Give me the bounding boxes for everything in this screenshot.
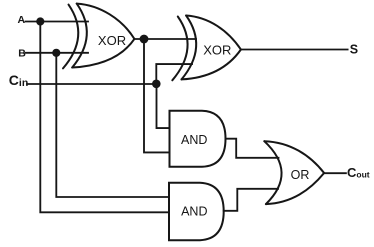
xor gate U2 ((A xor B) xor Cin) xyxy=(172,16,241,81)
wire XOR2 output to S xyxy=(241,49,348,51)
svg-text:B: B xyxy=(18,47,26,59)
or gate U5 (carry out) xyxy=(264,141,324,204)
svg-text:A: A xyxy=(18,14,26,26)
and gate U3 ((A xor B) and Cin) xyxy=(170,111,226,167)
wire OR output to Cout xyxy=(324,172,346,174)
wire Cin branch up to XOR2 lower input xyxy=(156,64,192,84)
svg-text:AND: AND xyxy=(181,205,207,219)
wire A branch down to AND2 lower input xyxy=(40,22,169,213)
wire A input xyxy=(26,21,89,23)
xor gate U1 (A xor B) xyxy=(63,4,134,69)
svg-text:S: S xyxy=(350,43,358,57)
node junction on A xyxy=(36,17,44,25)
wire B branch down to AND2 upper input xyxy=(56,53,169,197)
and gate U4 (A and B) xyxy=(169,183,224,241)
node junction on B xyxy=(52,49,60,57)
svg-text:XOR: XOR xyxy=(98,33,126,48)
wire AND2 output to OR lower input xyxy=(224,189,278,211)
svg-text:AND: AND xyxy=(181,133,207,147)
node junction on Cin xyxy=(152,80,161,89)
wire Cin input xyxy=(27,83,156,85)
svg-text:XOR: XOR xyxy=(203,42,231,57)
wire B input xyxy=(26,52,89,54)
node junction XOR1 output xyxy=(140,35,149,44)
wire XOR1 output branch down to AND1 lower input xyxy=(144,39,170,152)
svg-text:OR: OR xyxy=(291,168,310,182)
wire Cin branch down to AND1 upper input xyxy=(157,84,170,128)
wire XOR1 output to XOR2 upper input xyxy=(134,38,196,40)
wire AND1 output to OR upper input xyxy=(226,139,279,158)
